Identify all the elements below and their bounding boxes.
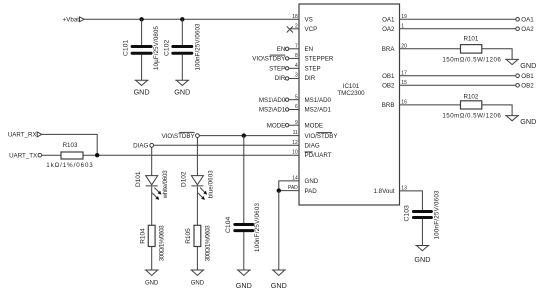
- svg-text:GND: GND: [271, 281, 287, 290]
- node UART_RX terminal: [8, 132, 42, 139]
- svg-text:STEP: STEP: [305, 66, 321, 73]
- junction at C102: [180, 17, 184, 21]
- pin 9 MODE net label: [267, 120, 323, 130]
- resistor R103 1kOhm/1%/0603: [46, 142, 93, 169]
- pin 12 DIAG: [292, 140, 320, 150]
- svg-text:OB2: OB2: [382, 82, 395, 89]
- svg-text:7: 7: [295, 43, 298, 49]
- junction C104 on VIO\STDBY line: [242, 133, 246, 137]
- svg-text:D102: D102: [181, 171, 188, 187]
- junction PAD/GND: [277, 188, 281, 192]
- pin 4 STEP net label: [269, 63, 321, 73]
- ground below R105: [190, 270, 204, 287]
- svg-text:18: 18: [292, 14, 298, 20]
- pin 10 PD/UART: [292, 150, 332, 160]
- svg-text:6: 6: [295, 104, 298, 110]
- pin 3 DIR net label: [275, 73, 316, 83]
- svg-text:R103: R103: [63, 142, 78, 149]
- resistor R101 150mOhm/0.5W/1206: [442, 35, 501, 63]
- svg-text:300Ω/1%/0603: 300Ω/1%/0603: [204, 225, 211, 262]
- ground below R104: [145, 270, 159, 287]
- svg-text:300Ω/1%/0603: 300Ω/1%/0603: [159, 225, 166, 262]
- node VIO\STDBY net label: [162, 132, 200, 139]
- pin 13 1.8Vout: [374, 186, 423, 211]
- svg-text:R101: R101: [464, 35, 479, 42]
- svg-text:GND: GND: [520, 117, 536, 126]
- svg-text:UART_TX: UART_TX: [9, 153, 37, 160]
- resistor R105 300Ohm/1%/0603: [185, 225, 211, 270]
- svg-text:MS1\AD0: MS1\AD0: [259, 97, 286, 104]
- svg-text:+Vbat: +Vbat: [63, 17, 80, 24]
- svg-text:9: 9: [295, 120, 298, 126]
- svg-text:OA2: OA2: [382, 26, 395, 33]
- capacitor C104 100nF/25V/0603: [225, 136, 261, 270]
- svg-text:GND: GND: [145, 281, 159, 287]
- pin 20 BRA: [382, 43, 461, 53]
- pin 18 VS: [292, 14, 313, 24]
- svg-text:PAD: PAD: [305, 188, 318, 195]
- node +Vbat terminal: [63, 17, 85, 24]
- svg-text:C102: C102: [163, 40, 170, 56]
- svg-text:DIR: DIR: [275, 75, 286, 82]
- svg-text:DIAG: DIAG: [133, 143, 148, 150]
- svg-text:white/0603: white/0603: [162, 170, 169, 200]
- pin 15 OB2: [382, 80, 534, 90]
- ground below PAD: [271, 270, 287, 290]
- pin 5 MS1/AD0 net label: [259, 94, 332, 104]
- svg-text:4: 4: [295, 63, 298, 69]
- svg-text:150mΩ/0.5W/1206: 150mΩ/0.5W/1206: [442, 57, 501, 64]
- svg-text:D101: D101: [135, 171, 142, 187]
- LED D102 blue/0603: [181, 170, 215, 226]
- node UART_TX terminal: [9, 153, 41, 160]
- svg-text:VS: VS: [305, 17, 313, 24]
- svg-text:GND: GND: [236, 281, 252, 290]
- svg-text:OB2: OB2: [521, 82, 534, 89]
- pin 19 OA1: [382, 14, 534, 24]
- svg-text:R104: R104: [140, 228, 147, 244]
- svg-text:100nF/25V/0603: 100nF/25V/0603: [254, 202, 261, 252]
- svg-text:C104: C104: [225, 217, 232, 233]
- svg-text:VIO\STDBY: VIO\STDBY: [252, 56, 285, 63]
- ground below C101: [134, 80, 150, 96]
- svg-text:GND: GND: [305, 178, 319, 185]
- pin 7 EN net label: [277, 43, 313, 53]
- svg-text:DIR: DIR: [305, 75, 316, 82]
- wire DIAG down to D101: [151, 147, 153, 175]
- svg-text:BRB: BRB: [382, 102, 395, 109]
- svg-text:TMC2300: TMC2300: [337, 90, 365, 97]
- svg-text:C103: C103: [404, 205, 411, 221]
- svg-text:DIAG: DIAG: [305, 143, 320, 150]
- svg-text:2: 2: [295, 23, 298, 29]
- wire UART_TX to R103: [42, 154, 61, 156]
- svg-text:R105: R105: [185, 228, 192, 244]
- svg-text:OB1: OB1: [521, 73, 534, 80]
- svg-text:EN: EN: [277, 46, 286, 53]
- capacitor C101 10uF/25V/0805: [123, 19, 160, 80]
- svg-text:MODE: MODE: [305, 122, 324, 129]
- ground below C103: [414, 246, 430, 265]
- svg-text:GND: GND: [520, 61, 536, 70]
- wire VIO\STDBY to pin 11: [199, 135, 299, 137]
- svg-text:100nF/25V/0603: 100nF/25V/0603: [195, 23, 202, 71]
- svg-text:VIO/STDBY: VIO/STDBY: [305, 133, 338, 140]
- wire R103 to pin 10: [83, 154, 299, 156]
- svg-text:1kΩ/1%/0603: 1kΩ/1%/0603: [46, 162, 93, 169]
- svg-text:10µF/25V/0805: 10µF/25V/0805: [153, 25, 160, 70]
- svg-text:VIO\STDBY: VIO\STDBY: [162, 133, 195, 140]
- svg-text:150mΩ/0.5W/1206: 150mΩ/0.5W/1206: [442, 113, 501, 120]
- ground below C104: [236, 270, 252, 290]
- ground right of R101: [505, 59, 536, 69]
- resistor R102 150mOhm/0.5W/1206: [442, 93, 501, 119]
- pin 17 OB1: [382, 70, 534, 80]
- wire R102 to ground: [482, 105, 512, 116]
- svg-text:GND: GND: [134, 88, 150, 97]
- pin 14 GND: [279, 176, 319, 191]
- svg-text:STEP: STEP: [269, 66, 285, 73]
- svg-text:5: 5: [295, 94, 298, 100]
- ground right of R102: [505, 116, 536, 126]
- svg-text:OA1: OA1: [382, 17, 395, 24]
- svg-text:GND: GND: [414, 255, 430, 264]
- pin PAD: [279, 185, 317, 195]
- wire R101 to ground: [482, 49, 512, 60]
- wire PAD to ground: [278, 191, 280, 270]
- pin 8 STEPPER / net VIO\STDBY: [252, 53, 334, 63]
- pin 11 VIO/STDBY: [293, 130, 338, 140]
- svg-text:3: 3: [295, 73, 298, 79]
- svg-text:EN: EN: [305, 46, 314, 53]
- IC IC101 TMC2300 body: [299, 4, 400, 205]
- svg-text:BRA: BRA: [382, 46, 396, 53]
- svg-text:OB1: OB1: [382, 73, 395, 80]
- svg-text:R102: R102: [464, 93, 479, 100]
- svg-text:GND: GND: [174, 88, 190, 97]
- pin 16 BRB: [382, 100, 461, 110]
- svg-text:STEPPER: STEPPER: [305, 56, 334, 63]
- svg-text:MS2\AD1: MS2\AD1: [259, 107, 286, 114]
- svg-text:GND: GND: [191, 281, 205, 287]
- svg-text:OA2: OA2: [521, 26, 534, 33]
- svg-text:1.8Vout: 1.8Vout: [374, 188, 395, 195]
- LED D101 white/0603: [135, 170, 169, 226]
- capacitor C103 100nF/25V/0603: [404, 190, 441, 246]
- wire UART_RX to junction: [42, 134, 98, 155]
- svg-text:UART_RX: UART_RX: [8, 132, 37, 139]
- wire VIO\STDBY down to D102: [196, 138, 198, 176]
- svg-text:MODE: MODE: [267, 122, 286, 129]
- svg-text:MS1/AD0: MS1/AD0: [305, 97, 332, 104]
- wire +Vbat rail to pin 18 VS: [84, 18, 299, 20]
- svg-text:PD/UART: PD/UART: [305, 152, 332, 159]
- svg-text:100nF/25V/0603: 100nF/25V/0603: [434, 190, 441, 240]
- junction UART RX/TX: [95, 153, 99, 157]
- resistor R104 300Ohm/1%/0603: [140, 225, 166, 270]
- svg-text:blue/0603: blue/0603: [208, 170, 215, 199]
- pin 2 VCP no-connect X: [287, 23, 318, 33]
- pin 1 OA2: [382, 23, 534, 33]
- ground below C102: [174, 80, 190, 96]
- svg-text:MS2/AD1: MS2/AD1: [305, 107, 332, 114]
- svg-text:OA1: OA1: [521, 17, 534, 24]
- svg-text:C101: C101: [123, 40, 130, 56]
- node DIAG net label: [133, 143, 153, 150]
- capacitor C102 100nF/25V/0603: [163, 19, 201, 80]
- junction at C101: [139, 17, 143, 21]
- svg-text:10: 10: [292, 150, 298, 156]
- svg-text:8: 8: [295, 53, 298, 59]
- svg-text:VCP: VCP: [305, 26, 318, 33]
- wire DIAG to pin 12: [154, 144, 299, 146]
- pin 6 MS2/AD1 net label: [259, 104, 332, 114]
